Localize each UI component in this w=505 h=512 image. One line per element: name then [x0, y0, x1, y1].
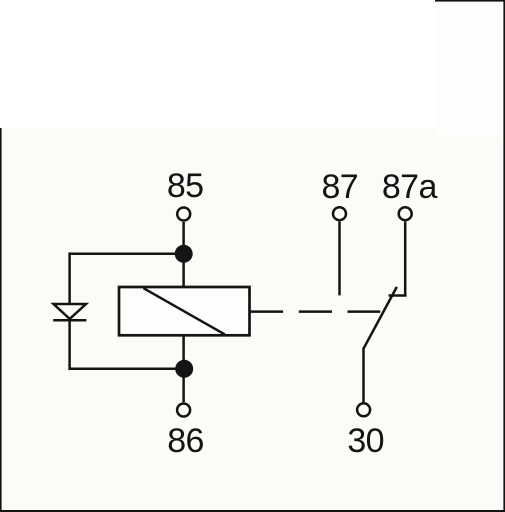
wire coil armature lead: [250, 310, 284, 313]
terminal 85: [177, 208, 190, 221]
terminal 30: [357, 403, 370, 416]
wire mechanical linkage dash 3: [348, 310, 381, 313]
wire mechanical linkage dash 2: [299, 310, 332, 313]
label 30: [347, 422, 384, 460]
wire 87 contact: [338, 222, 341, 296]
wire coil to bottom junction: [182, 335, 185, 369]
wire top junction to diode branch: [70, 253, 184, 256]
wire diode cathode lead: [68, 320, 71, 370]
svg-text:86: 86: [167, 422, 204, 460]
svg-text:87a: 87a: [382, 168, 438, 206]
wire bottom junction to terminal 86: [182, 369, 185, 402]
terminal 86: [177, 404, 190, 417]
svg-text:85: 85: [167, 167, 204, 205]
svg-text:87: 87: [321, 168, 358, 206]
diode D1: [53, 304, 86, 320]
label 85: [167, 167, 204, 205]
node bottom junction: [175, 360, 193, 378]
label 87: [321, 168, 358, 206]
node top junction: [175, 245, 193, 263]
wire 85 to top junction: [182, 222, 185, 254]
svg-text:30: 30: [347, 422, 384, 460]
terminal 87: [333, 207, 346, 220]
wire diode branch to bottom junction: [70, 367, 185, 370]
label 86: [167, 422, 204, 460]
label 87a: [382, 168, 438, 206]
switch arm common contact: [363, 287, 396, 402]
terminal 87a: [399, 207, 412, 220]
wire diode anode lead: [68, 252, 71, 304]
wire 87a contact: [389, 222, 407, 296]
wire top junction to coil: [182, 254, 185, 288]
relay coil K1: [119, 287, 250, 335]
